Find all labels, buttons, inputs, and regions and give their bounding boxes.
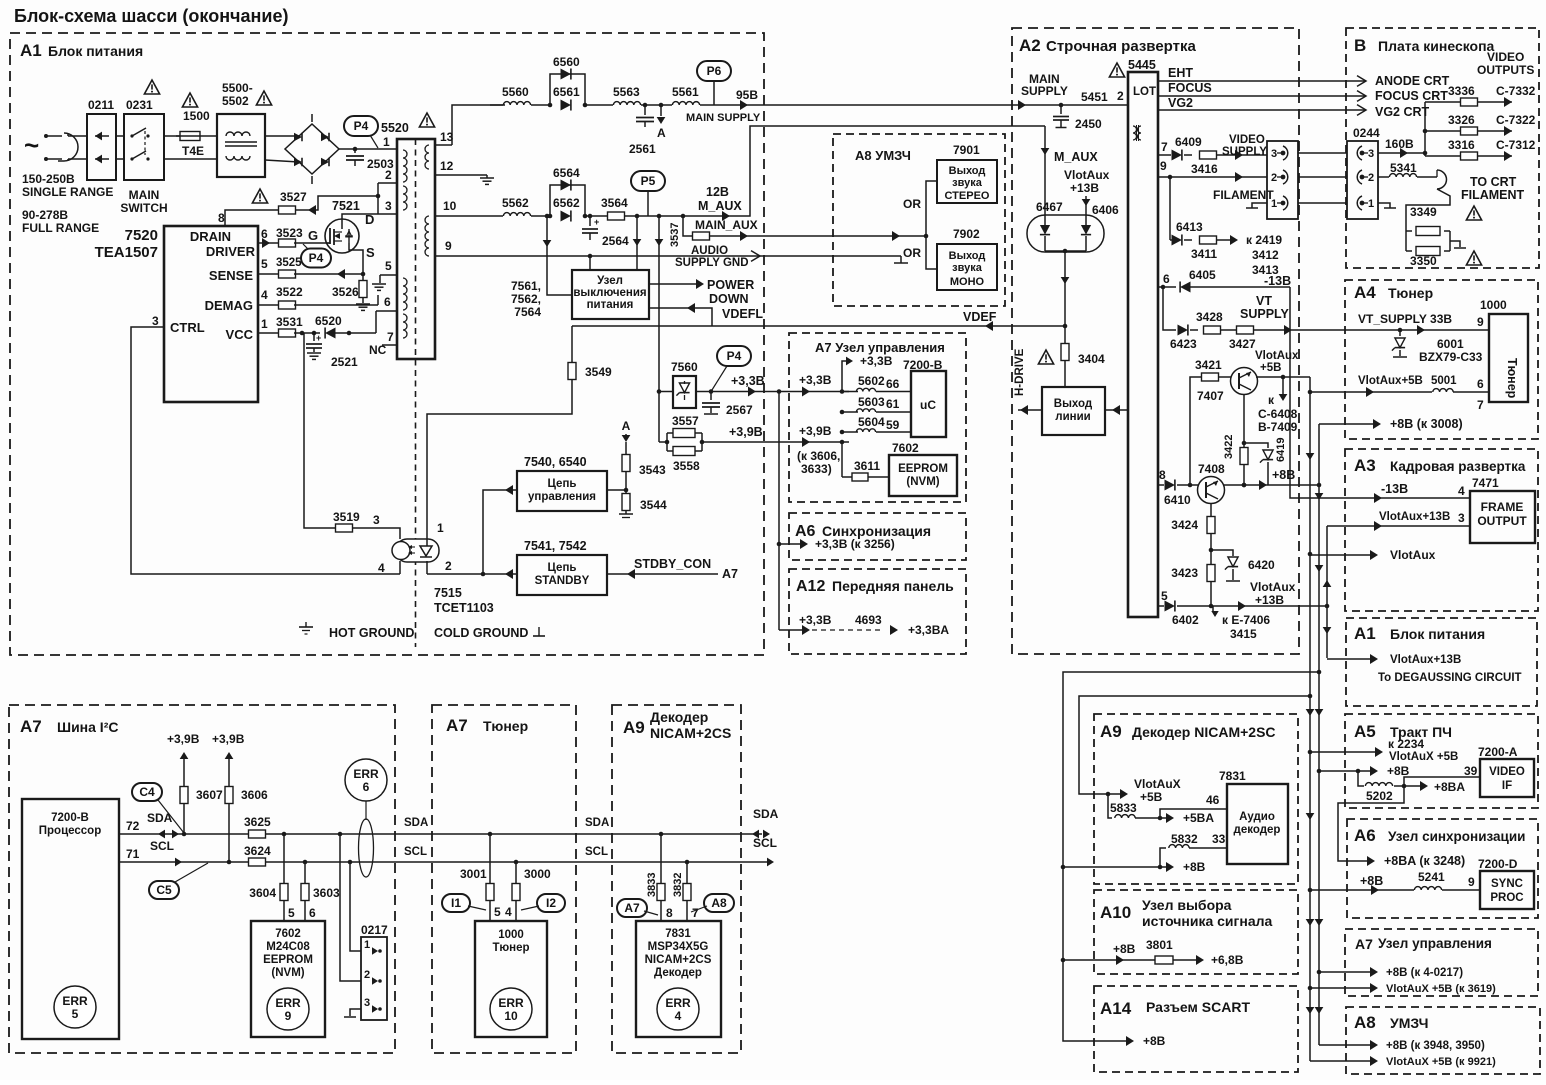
zener 6419 [1244, 443, 1268, 448]
svg-text:VlotAuX +5B: VlotAuX +5B [1389, 751, 1458, 763]
svg-text:M_AUX: M_AUX [1054, 150, 1098, 164]
svg-text:3832: 3832 [672, 873, 684, 897]
wire 3,3V 4693 [779, 629, 806, 631]
svg-text:6419: 6419 [1275, 438, 1287, 462]
inductor 5604 pin59 [842, 431, 858, 433]
wire SCL to 0217 pin1 [348, 860, 353, 865]
svg-text:Узел выбора: Узел выбора [1142, 897, 1232, 913]
svg-text:2567: 2567 [726, 403, 753, 417]
svg-text:Узел синхронизации: Узел синхронизации [1388, 829, 1525, 844]
wire VlotAuX5B into A9 [1104, 793, 1124, 795]
wire AUDIO SUPPLY GND [435, 255, 901, 257]
wire plus8V 5241 to sync [1310, 889, 1414, 891]
svg-text:Блок питания: Блок питания [1390, 626, 1485, 642]
svg-text:SUPPLY: SUPPLY [1240, 307, 1290, 321]
inductor 5202 [1358, 771, 1364, 786]
svg-text:VT: VT [1256, 294, 1272, 308]
svg-text:A7: A7 [446, 716, 468, 735]
svg-text:3: 3 [373, 513, 380, 527]
svg-text:3523: 3523 [276, 226, 303, 240]
svg-text:VlotAux+5B: VlotAux+5B [1358, 375, 1423, 387]
svg-text:Декодер NICAM+2SC: Декодер NICAM+2SC [1132, 724, 1276, 740]
wires between connectors [1298, 152, 1347, 154]
wire minus13V down to frame [1290, 287, 1470, 498]
resistor 3537 [693, 232, 710, 240]
svg-text:7902: 7902 [953, 227, 980, 241]
svg-text:7540, 6540: 7540, 6540 [524, 455, 587, 469]
module A5 box [1345, 714, 1538, 808]
svg-text:3428: 3428 [1196, 310, 1223, 324]
wire plus8BA down to A6 [1338, 786, 1404, 861]
resistor 3526 [359, 281, 367, 298]
svg-text:MSP34X5G: MSP34X5G [648, 941, 709, 953]
svg-text:3519: 3519 [333, 510, 360, 524]
pin 12 of 5520 [435, 174, 487, 176]
svg-text:+3,9B: +3,9B [167, 732, 200, 746]
capacitor 2567 [710, 392, 712, 401]
A8 pill [704, 894, 734, 912]
resistor 3519 [304, 333, 336, 528]
bus plus13V vertical [1326, 526, 1328, 658]
svg-text:3: 3 [385, 199, 392, 213]
pin 6 of 5520 [376, 310, 397, 312]
svg-text:3833: 3833 [646, 873, 658, 897]
svg-text:FILAMENT: FILAMENT [1213, 188, 1274, 202]
svg-text:6: 6 [309, 906, 316, 920]
svg-text:2: 2 [445, 559, 452, 573]
svg-text:5502: 5502 [222, 94, 249, 108]
svg-text:0211: 0211 [88, 98, 114, 112]
svg-text:SDA: SDA [585, 817, 609, 829]
svg-text:3558: 3558 [673, 459, 700, 473]
connector 0211 [87, 114, 116, 180]
svg-text:VIDEO: VIDEO [1487, 50, 1524, 64]
svg-text:FOCUS: FOCUS [1168, 81, 1212, 95]
svg-text:Строчная развертка: Строчная развертка [1046, 38, 1196, 55]
zener 6001 [1399, 330, 1401, 336]
svg-text:3: 3 [152, 314, 159, 328]
err6 circle [345, 759, 387, 801]
wire pin46 [1160, 809, 1227, 818]
svg-text:3544: 3544 [640, 498, 667, 512]
svg-text:3415: 3415 [1230, 627, 1257, 641]
svg-text:Блок питания: Блок питания [48, 43, 143, 59]
wire VlotAux13B into A1 [1327, 658, 1374, 660]
pin 2 of 5520 [378, 182, 397, 184]
wire 3,9V rail [702, 441, 849, 443]
svg-text:6410: 6410 [1164, 493, 1191, 507]
svg-text:+8B: +8B [1183, 860, 1206, 874]
svg-text:3: 3 [1458, 511, 1465, 525]
svg-text:3564: 3564 [601, 196, 628, 210]
svg-text:2: 2 [1368, 172, 1374, 184]
resistor 3549 branch [571, 326, 573, 362]
svg-text:P4: P4 [727, 349, 742, 363]
svg-text:P4: P4 [354, 119, 369, 133]
svg-text:+5BA: +5BA [1183, 811, 1214, 825]
svg-text:+3,3B (к 3256): +3,3B (к 3256) [815, 537, 895, 551]
branch down to power-off unit [636, 216, 638, 270]
svg-text:NC: NC [369, 343, 387, 357]
svg-text:160B: 160B [1385, 137, 1414, 151]
svg-text:6560: 6560 [553, 55, 580, 69]
connector A2 side [1267, 141, 1298, 219]
capacitor 2521 [313, 333, 315, 341]
svg-text:VlotAuX: VlotAuX [1134, 777, 1181, 791]
svg-text:A: A [657, 126, 666, 140]
svg-text:OR: OR [903, 246, 921, 260]
svg-text:Декодер: Декодер [654, 967, 702, 979]
svg-text:3404: 3404 [1078, 352, 1105, 366]
svg-text:SYNC: SYNC [1491, 878, 1523, 890]
svg-text:5: 5 [72, 1007, 79, 1021]
svg-text:5832: 5832 [1171, 832, 1198, 846]
opto pin 1 wire [426, 539, 428, 546]
svg-text:A1: A1 [1354, 624, 1376, 643]
svg-text:(NVM): (NVM) [271, 967, 304, 979]
module A6 sync box [789, 513, 966, 560]
line output box [1042, 387, 1105, 435]
svg-text:звука: звука [952, 262, 983, 274]
module A12 box [789, 569, 966, 654]
svg-text:TCET1103: TCET1103 [434, 601, 494, 615]
svg-text:5: 5 [261, 257, 268, 271]
svg-text:SUPPLY GND: SUPPLY GND [675, 257, 749, 269]
svg-text:3604: 3604 [249, 886, 276, 900]
svg-text:3543: 3543 [639, 463, 666, 477]
svg-text:3611: 3611 [854, 459, 880, 473]
svg-text:VlotAux: VlotAux [1064, 168, 1110, 182]
wire VlotAux5B to tuner [1310, 391, 1432, 393]
svg-text:MAIN: MAIN [129, 188, 160, 202]
wire plus8V k4-0217 [1319, 971, 1374, 973]
svg-text:59: 59 [886, 418, 900, 432]
resistor 3424 [1207, 517, 1215, 534]
warning triangle near 5520 [419, 113, 434, 127]
svg-text:10: 10 [504, 1009, 518, 1023]
svg-text:Процессор: Процессор [39, 825, 101, 837]
svg-text:к: к [1268, 393, 1275, 407]
svg-text:HOT GROUND: HOT GROUND [329, 626, 414, 640]
P4 pill near 5520 [344, 116, 378, 136]
svg-text:7564: 7564 [514, 305, 541, 319]
wire 3,3V k3256 [779, 543, 804, 545]
svg-text:A14: A14 [1100, 999, 1132, 1018]
svg-text:P4: P4 [309, 251, 324, 265]
wire fuse to 5500 [204, 135, 217, 137]
dual diode oval 6467 6406 [1027, 215, 1104, 252]
pin 7 NC of 5520 [382, 344, 397, 346]
svg-text:+8BA: +8BA [1434, 780, 1465, 794]
inductor 5602 pin66 [840, 389, 845, 394]
wire 7408 emitter down [1210, 503, 1212, 517]
svg-text:OR: OR [903, 197, 921, 211]
power off unit box [572, 270, 649, 319]
svg-text:39: 39 [1464, 764, 1478, 778]
decoder box 7831 bottom [636, 921, 721, 1037]
svg-text:A5: A5 [1354, 722, 1376, 741]
svg-text:1: 1 [364, 939, 370, 951]
svg-text:M24C08: M24C08 [266, 941, 310, 953]
svg-text:SENSE: SENSE [209, 268, 253, 283]
svg-text:5: 5 [385, 259, 392, 273]
svg-text:4: 4 [505, 905, 512, 919]
svg-text:Шина I²C: Шина I²C [57, 719, 118, 735]
svg-text:+8B (к 3948, 3950): +8B (к 3948, 3950) [1386, 1040, 1485, 1052]
warning triangle 5445 [1109, 63, 1124, 77]
svg-text:VCC: VCC [226, 327, 254, 342]
SCL line [119, 861, 770, 863]
transformer 5520 [397, 139, 435, 359]
svg-text:SCL: SCL [404, 846, 427, 858]
STDBY_CON wire [607, 573, 718, 575]
err9 circle [267, 988, 309, 1030]
svg-text:3527: 3527 [280, 190, 307, 204]
P4 pill at 3,3V [717, 346, 751, 366]
resistor 3326 C-7322 [1425, 130, 1461, 132]
svg-text:6467: 6467 [1036, 200, 1063, 214]
svg-text:DOWN: DOWN [709, 292, 749, 306]
hot ground symbol [305, 622, 307, 627]
svg-text:3: 3 [1368, 148, 1374, 160]
inductor 5603 pin61 [842, 411, 858, 413]
wire standby to opto line [427, 573, 517, 575]
arrow plus8BA [1404, 785, 1424, 787]
svg-text:6562: 6562 [553, 196, 580, 210]
arrow into 6406 [1085, 196, 1087, 226]
svg-text:Выход: Выход [1054, 398, 1093, 410]
svg-text:+13B: +13B [1255, 593, 1284, 607]
source wire [349, 243, 363, 274]
svg-text:3416: 3416 [1191, 162, 1218, 176]
svg-text:7831: 7831 [665, 928, 691, 940]
svg-text:33: 33 [1212, 832, 1226, 846]
svg-text:2: 2 [364, 969, 370, 981]
svg-text:A1: A1 [20, 41, 42, 60]
wire 7408 to plus8V bus [1224, 484, 1319, 486]
wire SDA to 0217 pin2 [338, 832, 343, 837]
svg-text:3549: 3549 [585, 365, 612, 379]
svg-text:-13B: -13B [1381, 482, 1408, 496]
module A4 tuner box [1345, 280, 1538, 439]
resistor 3422 [1240, 448, 1248, 465]
ground at 0217 pin3 [350, 1009, 361, 1016]
svg-text:A: A [622, 419, 631, 433]
svg-text:I1: I1 [451, 896, 461, 910]
EHT wire [1158, 80, 1366, 82]
svg-text:7831: 7831 [1219, 769, 1246, 783]
ground at pin 12 [486, 175, 488, 178]
opto pin 3 wire [397, 528, 400, 539]
ground at 3349 [1450, 241, 1460, 247]
feed wire plus5V to A9 region [1079, 696, 1310, 794]
svg-text:к E-7406: к E-7406 [1222, 613, 1270, 627]
svg-text:A6: A6 [795, 523, 816, 540]
svg-text:6: 6 [384, 295, 391, 309]
svg-text:7541, 7542: 7541, 7542 [524, 539, 587, 553]
svg-text:3607: 3607 [196, 788, 223, 802]
svg-text:EEPROM: EEPROM [263, 954, 313, 966]
resistor 3421 branch [1190, 377, 1202, 485]
svg-text:5560: 5560 [502, 85, 529, 99]
svg-text:Кадровая развертка: Кадровая развертка [1390, 459, 1526, 474]
svg-text:A7: A7 [624, 901, 640, 915]
svg-text:6564: 6564 [553, 166, 580, 180]
svg-text:к 2419: к 2419 [1246, 233, 1282, 247]
svg-text:0244: 0244 [1353, 126, 1380, 140]
cable tie ellipse [365, 801, 367, 820]
svg-text:3427: 3427 [1229, 337, 1256, 351]
svg-text:7: 7 [692, 906, 699, 920]
wire H-drive out [1018, 409, 1042, 411]
wire to pin 39 [1404, 777, 1480, 786]
ground at pin 5 [379, 275, 381, 283]
svg-text:ERR: ERR [353, 767, 379, 781]
ground at audio line end [900, 256, 902, 263]
svg-text:VlotAux: VlotAux [1250, 580, 1296, 594]
svg-text:OUTPUTS: OUTPUTS [1477, 63, 1534, 77]
VG2 wire [1158, 109, 1366, 111]
filament loop [1437, 170, 1447, 189]
wire plus8V into A9 [1063, 866, 1170, 868]
svg-text:Узел: Узел [597, 275, 623, 287]
svg-text:9: 9 [1468, 875, 1475, 889]
svg-text:SINGLE RANGE: SINGLE RANGE [22, 185, 113, 199]
svg-text:5604: 5604 [858, 415, 885, 429]
svg-text:Тюнер: Тюнер [1505, 358, 1519, 399]
svg-text:3625: 3625 [244, 815, 271, 829]
wire plus8V k3008 [1319, 423, 1377, 425]
svg-text:Цепь: Цепь [548, 562, 577, 574]
VDEF line across [572, 325, 1065, 327]
video output resistors [1424, 102, 1426, 156]
module A9 NICAM 2CS box [612, 705, 741, 1053]
svg-text:3316: 3316 [1448, 138, 1475, 152]
warning triangle above 0231 [144, 80, 159, 94]
svg-text:6520: 6520 [315, 314, 342, 328]
svg-text:3525: 3525 [276, 257, 302, 269]
svg-text:6413: 6413 [1176, 220, 1203, 234]
wire plus8V A5 [1319, 770, 1374, 772]
svg-text:источника сигнала: источника сигнала [1142, 913, 1273, 929]
wire LOT to line output [1105, 409, 1128, 411]
svg-text:5561: 5561 [672, 85, 699, 99]
svg-text:3349: 3349 [1410, 205, 1437, 219]
svg-text:7408: 7408 [1198, 462, 1225, 476]
svg-text:В: В [1354, 36, 1366, 55]
module A1 right box [1346, 618, 1537, 706]
svg-text:A2: A2 [1019, 36, 1041, 55]
zener 6420 [1211, 550, 1233, 556]
wire k2234 VlotAuX5B [1310, 751, 1379, 753]
svg-text:VT_SUPPLY 33B: VT_SUPPLY 33B [1358, 312, 1452, 326]
svg-text:4693: 4693 [855, 613, 882, 627]
err5 circle [54, 986, 96, 1028]
ground at 0244 pin1 [1378, 203, 1390, 208]
svg-text:A4: A4 [1354, 283, 1376, 302]
opto pin 4 wire [399, 561, 401, 574]
resistor 3411 [1200, 236, 1217, 244]
svg-text:8: 8 [666, 906, 673, 920]
svg-text:A7: A7 [722, 567, 738, 581]
svg-text:Разъем SCART: Разъем SCART [1146, 999, 1250, 1015]
svg-text:7200-B: 7200-B [51, 812, 89, 824]
svg-text:3537: 3537 [669, 223, 681, 247]
svg-text:10: 10 [443, 199, 457, 213]
svg-text:1000: 1000 [498, 929, 524, 941]
svg-text:SCL: SCL [150, 839, 174, 853]
module A7 right box [1345, 929, 1538, 996]
svg-text:7561,: 7561, [511, 279, 541, 293]
svg-text:0231: 0231 [126, 98, 153, 112]
svg-text:3424: 3424 [1171, 518, 1198, 532]
err10 circle [490, 988, 532, 1030]
warning triangle 3404 [1038, 350, 1053, 364]
wire VlotAux out [1310, 554, 1374, 556]
svg-text:NICAM+2CS: NICAM+2CS [645, 954, 712, 966]
wire oval to VDEF [1064, 251, 1066, 326]
svg-text:VlotAux: VlotAux [1255, 350, 1299, 362]
module A2 line scan box [1012, 28, 1299, 654]
svg-text:+5B: +5B [1260, 362, 1281, 374]
svg-text:DRAIN: DRAIN [190, 229, 231, 244]
svg-text:M_AUX: M_AUX [698, 199, 742, 213]
feed wire plus8V to A14 region [1063, 672, 1319, 1041]
eeprom box 7602 bottom [251, 921, 325, 1037]
main switch 0231 [124, 114, 164, 180]
svg-text:VDEF: VDEF [963, 310, 997, 324]
svg-text:7562,: 7562, [511, 292, 541, 306]
svg-text:3326: 3326 [1448, 113, 1475, 127]
svg-text:1: 1 [1271, 198, 1277, 210]
svg-text:Узел управления: Узел управления [1378, 936, 1492, 951]
svg-text:3526: 3526 [332, 285, 359, 299]
module B CRT board box [1346, 28, 1539, 268]
drain wire [342, 214, 378, 229]
P4 pill at driver [301, 249, 331, 268]
svg-text:3421: 3421 [1195, 358, 1222, 372]
svg-text:VlotAux+13B: VlotAux+13B [1379, 511, 1450, 523]
P6 pill [697, 61, 731, 81]
svg-text:BZX79-C33: BZX79-C33 [1419, 350, 1483, 364]
svg-text:+8B: +8B [1387, 764, 1410, 778]
svg-text:A3: A3 [1354, 456, 1376, 475]
svg-text:9: 9 [1477, 315, 1484, 329]
svg-text:IF: IF [1502, 780, 1512, 792]
svg-text:7200-D: 7200-D [1478, 857, 1518, 871]
svg-text:3531: 3531 [276, 315, 303, 329]
M_AUX arrow down [1044, 126, 1046, 226]
svg-text:OUTPUT: OUTPUT [1477, 514, 1527, 528]
svg-text:uC: uC [920, 398, 936, 412]
svg-text:+8B: +8B [1143, 1034, 1166, 1048]
wire 7407 emitter down [1243, 394, 1245, 447]
wire M_AUX 12B [625, 215, 683, 217]
module A7 control box [789, 333, 966, 502]
svg-text:7471: 7471 [1472, 476, 1499, 490]
wire 7407 collector to bus [1256, 376, 1310, 378]
wire 3,3V rail [659, 391, 673, 393]
svg-text:3603: 3603 [313, 886, 340, 900]
svg-text:Тюнер: Тюнер [483, 718, 528, 734]
svg-text:90-278B: 90-278B [22, 208, 68, 222]
svg-text:CTRL: CTRL [170, 320, 205, 335]
module A9 NICAM 2SC box [1094, 714, 1298, 884]
branch down crossing to 3,3V rail [658, 216, 660, 442]
svg-text:5001: 5001 [1431, 375, 1457, 387]
svg-text:71: 71 [126, 847, 140, 861]
svg-text:5: 5 [494, 905, 501, 919]
